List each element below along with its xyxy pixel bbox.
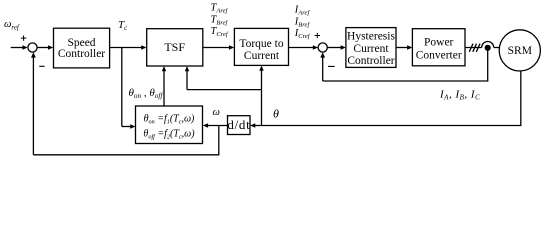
block: Speed Controller (54, 28, 110, 68)
svg-text:Torque to: Torque to (239, 38, 283, 50)
svg-text:d/dt: d/dt (227, 117, 250, 132)
wire: omega speed feedback to S1 (31, 52, 219, 155)
block: d/dt differentiator (227, 116, 250, 135)
wire: phase current feedback I_A I_B I_C to S2 (320, 48, 488, 81)
block: Torque to Current (234, 28, 288, 65)
svg-text:θ: θ (273, 106, 279, 120)
node T_c label (118, 19, 128, 32)
wire: Torque to Current to summing junction S2 (289, 45, 319, 49)
svg-text:Controller: Controller (58, 48, 105, 60)
wire: theta_on theta_off from f1/f2 up to TSF (162, 66, 166, 106)
wire: T_c branch down to f1/f2 block (122, 48, 136, 129)
svg-text:Power: Power (424, 37, 454, 49)
node omega label (213, 107, 220, 118)
wire: S2 to Hysteresis Current Controller (327, 45, 346, 49)
wire: Speed Controller to TSF (110, 45, 147, 49)
node theta label (273, 106, 279, 120)
svg-text:ω: ω (213, 107, 220, 118)
svg-text:Hysteresis: Hysteresis (347, 31, 395, 43)
wire: rotor position theta from SRM down and left to d/dt (250, 71, 521, 128)
summing junction S2 (318, 43, 327, 52)
wire: theta branch to TSF (185, 66, 262, 90)
node label theta_on, theta_off (129, 87, 164, 100)
wire: TSF to Torque to Current (203, 45, 234, 49)
plus sign at S1 (21, 35, 26, 40)
wire: theta branch up to Torque to Current (259, 65, 263, 125)
node labels I_Aref I_Bref I_Cref (294, 4, 311, 40)
svg-text:Current: Current (244, 50, 280, 62)
node labels T_Aref T_Bref T_Cref (211, 2, 229, 38)
svg-text:Converter: Converter (416, 50, 462, 62)
wire: S1 to Speed Controller (37, 45, 53, 49)
block: Hysteresis Current Controller (346, 28, 396, 68)
junction dot before SRM (485, 45, 491, 51)
block: TSF (147, 29, 203, 66)
block: SRM machine circle (499, 30, 540, 71)
node label I_A, I_B, I_C (439, 88, 480, 101)
block: turn-on/turn-off angle functions f1 f2 (136, 106, 203, 144)
plus sign at S2 (315, 33, 320, 38)
minus sign at S2 (328, 65, 335, 67)
summing junction S1 (28, 43, 37, 52)
three-phase slash marks (469, 44, 480, 52)
wire: omega from d/dt to f1/f2 block (203, 123, 228, 127)
svg-text:TSF: TSF (164, 40, 185, 54)
svg-text:Controller: Controller (347, 55, 394, 67)
wire: Hysteresis Current Controller to Power Converter (396, 45, 412, 49)
wire: Power Converter to SRM with hop (465, 42, 499, 48)
minus sign at S1 (39, 65, 44, 67)
svg-text:SRM: SRM (508, 45, 532, 57)
block: Power Converter (412, 29, 465, 66)
wire: omega_ref input into summing junction S1 (11, 45, 28, 49)
node omega_ref label (4, 19, 20, 32)
svg-text:Current: Current (353, 43, 389, 55)
